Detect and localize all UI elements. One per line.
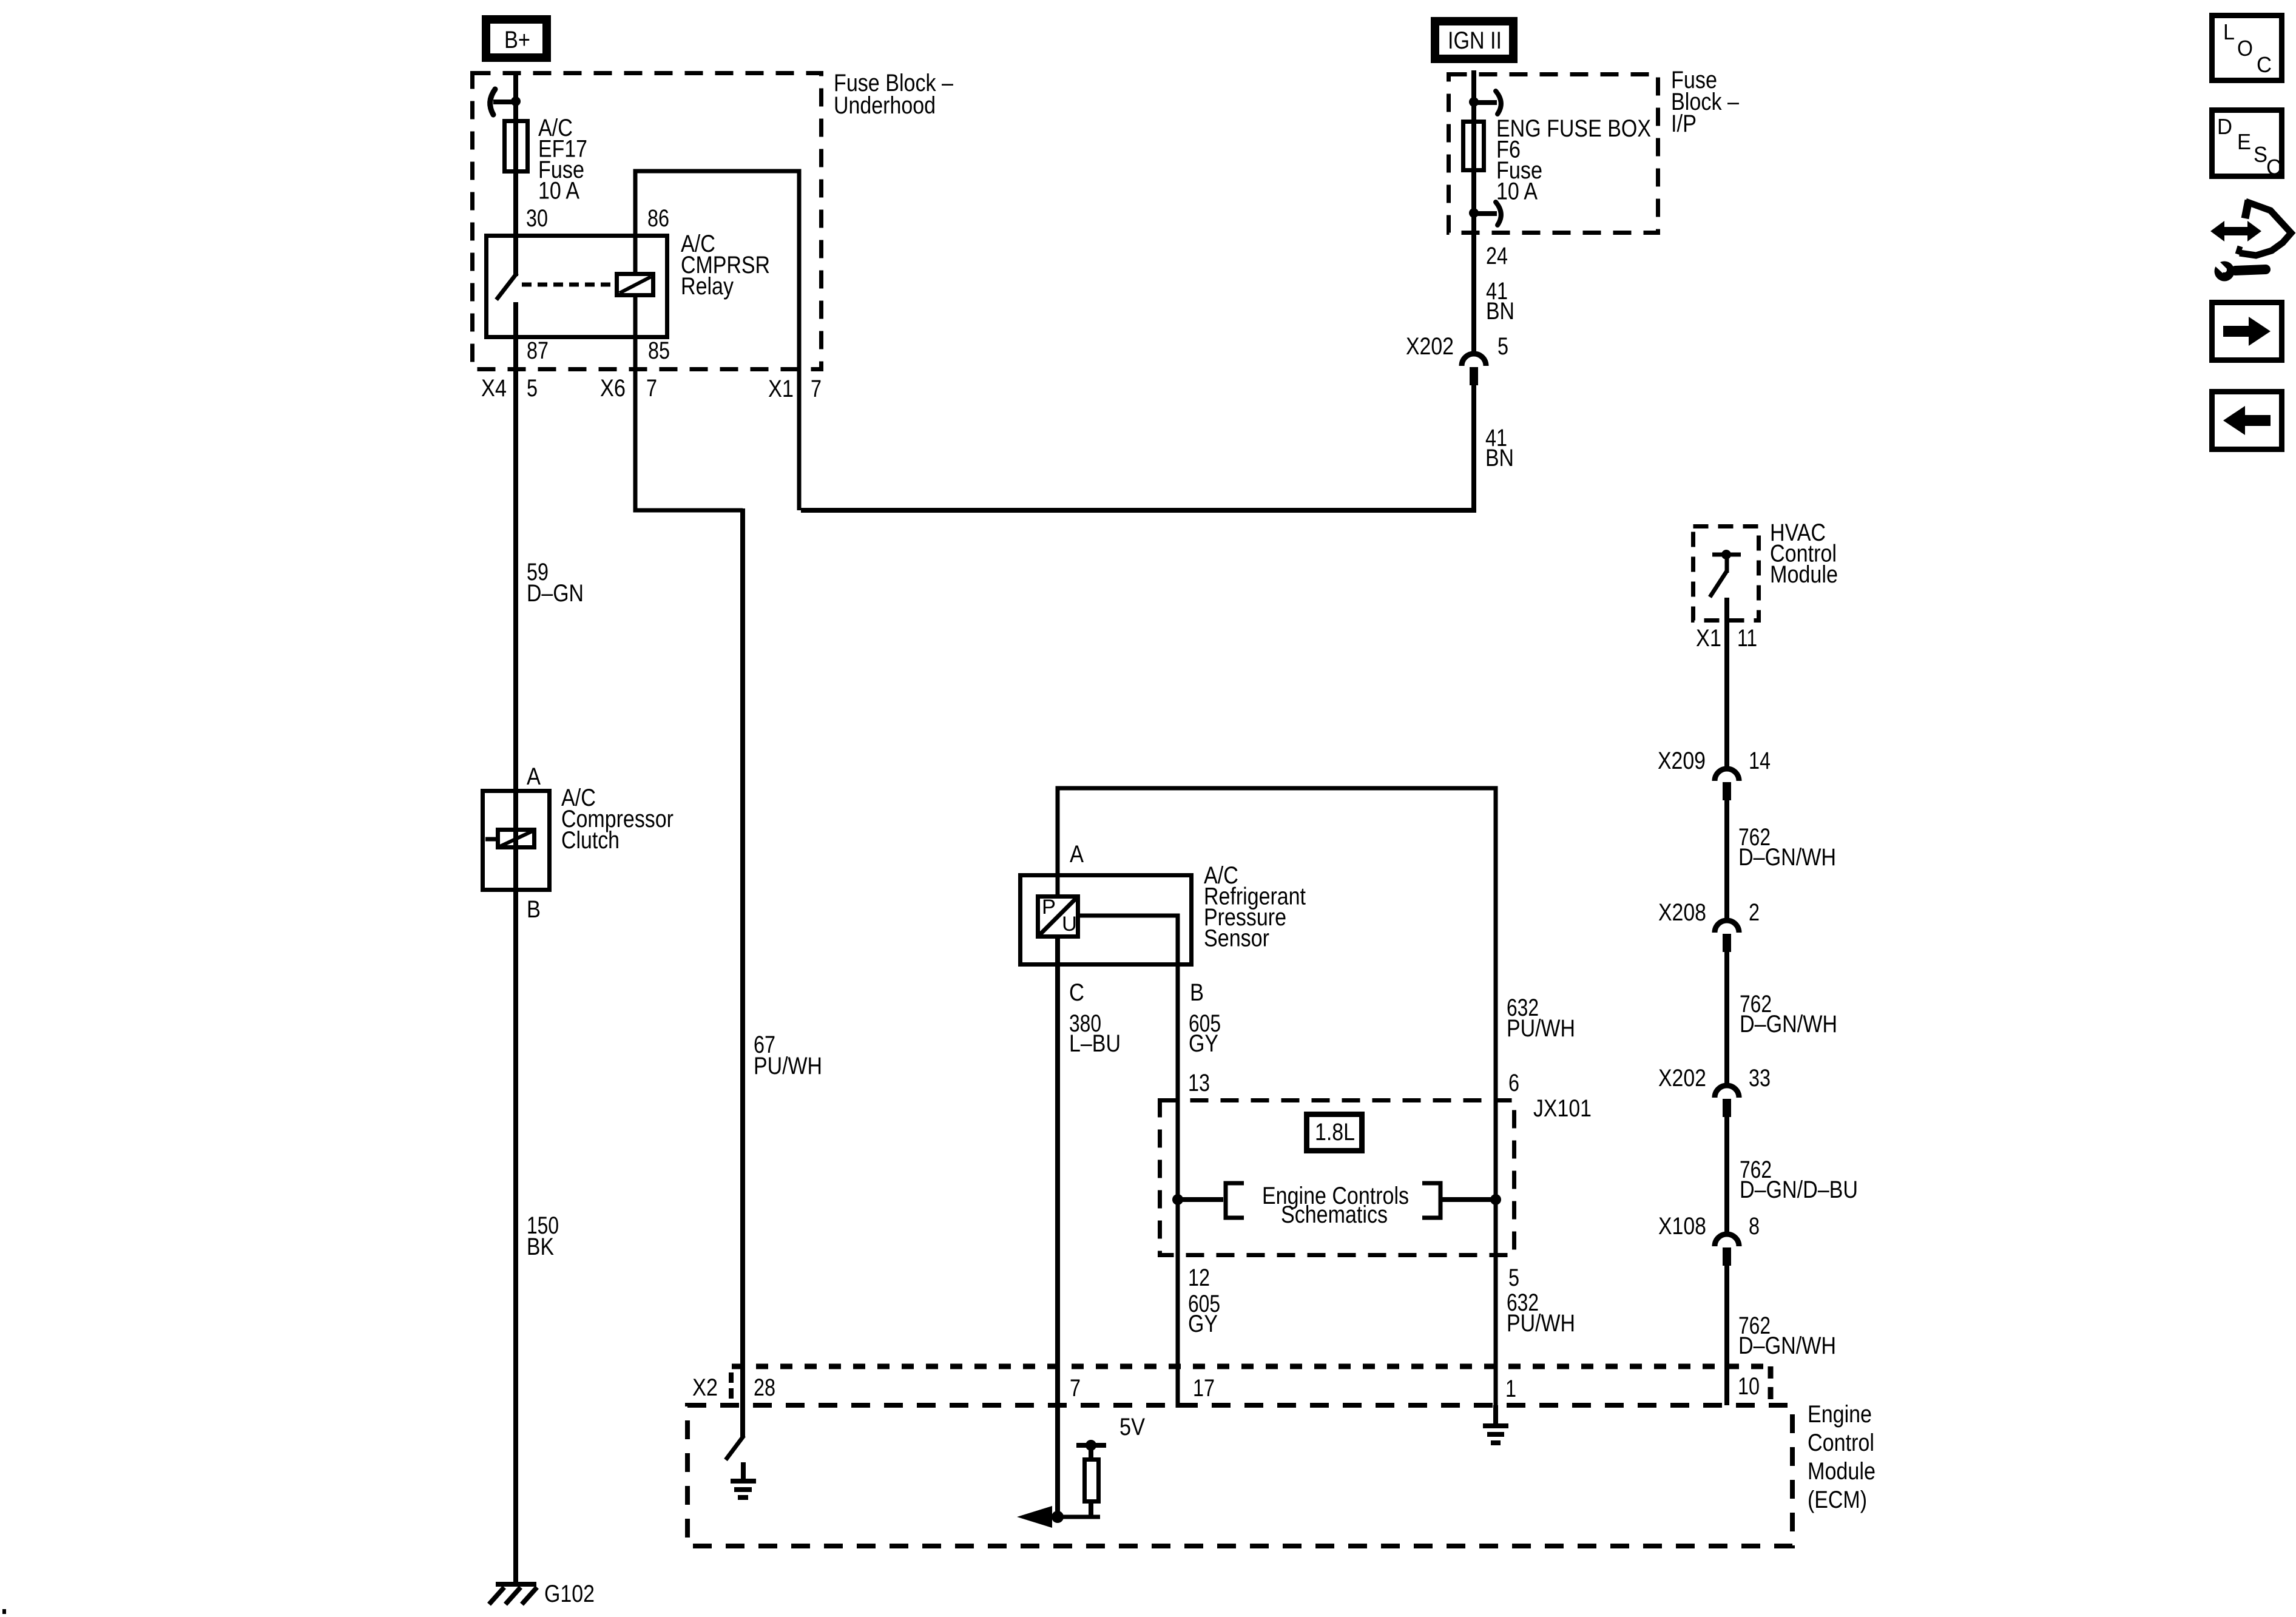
svg-text:C: C [1069, 979, 1084, 1006]
svg-text:Control: Control [1808, 1430, 1874, 1456]
junction dot pin 7 net [1052, 1511, 1064, 1523]
svg-text:PU/WH: PU/WH [1507, 1015, 1575, 1042]
resistor top wire to 5V [1089, 1447, 1093, 1459]
svg-text:2: 2 [1749, 899, 1760, 926]
svg-text:Engine: Engine [1808, 1401, 1872, 1428]
wire IGN II into fuse box [1471, 70, 1476, 173]
fuse block underhood dashed box [473, 73, 822, 370]
fuse block I/P dashed box [1449, 75, 1658, 233]
bus clip symbol left [490, 89, 495, 115]
bus clip symbol lower right [1496, 202, 1501, 225]
fuse ENG FUSE BOX F6 10A [1464, 122, 1484, 170]
relay switch blade [496, 273, 517, 300]
svg-text:X6: X6 [600, 375, 626, 402]
wire relay pin 85 down [635, 295, 743, 510]
sensor P/U transducer box [1038, 897, 1078, 937]
svg-text:5: 5 [1508, 1264, 1519, 1291]
svg-text:5: 5 [1497, 333, 1508, 360]
link wire to right junction [1440, 1197, 1496, 1202]
pullup resistor [1085, 1460, 1099, 1502]
sensor box [1021, 876, 1192, 965]
junction dot right engine controls [1490, 1194, 1501, 1205]
svg-text:B: B [1190, 979, 1204, 1006]
wire fuse to relay pin 30 [513, 171, 518, 276]
relay coil box [617, 274, 653, 295]
svg-text:10 A: 10 A [538, 178, 579, 204]
svg-text:A: A [1070, 841, 1084, 868]
svg-text:B+: B+ [504, 27, 530, 53]
icon box arrow left [2212, 392, 2282, 450]
junction dot lower [1469, 208, 1479, 218]
svg-text:28: 28 [754, 1374, 775, 1401]
svg-text:5: 5 [527, 375, 538, 402]
svg-text:PU/WH: PU/WH [754, 1053, 822, 1079]
svg-text:13: 13 [1188, 1070, 1210, 1096]
X2 dotted separator [729, 1372, 734, 1400]
wire B+ into fuse block (node bus) [513, 71, 518, 121]
svg-text:11: 11 [1737, 625, 1757, 652]
engine controls schematics dashed box [1160, 1101, 1514, 1255]
bus clip symbol upper right [1496, 91, 1501, 114]
svg-text:L–BU: L–BU [1069, 1030, 1121, 1057]
svg-text:I/P: I/P [1671, 110, 1697, 137]
clutch coil left stub [485, 837, 496, 842]
junction dot B+ bus [511, 96, 521, 106]
ECM dashed box [687, 1405, 1792, 1546]
svg-text:X208: X208 [1658, 899, 1706, 926]
icon box LOC [2212, 16, 2282, 81]
svg-text:10: 10 [1738, 1373, 1760, 1400]
5V supply bar [1076, 1443, 1106, 1448]
svg-text:PU/WH: PU/WH [1507, 1310, 1575, 1337]
svg-text:D–GN/WH: D–GN/WH [1740, 1011, 1837, 1038]
svg-text:A: A [527, 763, 541, 790]
right bracket [1422, 1183, 1440, 1218]
relay coil slash [620, 277, 651, 293]
svg-text:G102: G102 [544, 1581, 595, 1607]
ECM internal ground pin 28 [741, 1462, 746, 1480]
svg-text:1: 1 [1505, 1376, 1516, 1402]
svg-text:D–GN: D–GN [527, 580, 584, 607]
P/U slash [1039, 898, 1076, 935]
inline connector X208-2 [1715, 920, 1739, 933]
link wire to left bracket [1178, 1197, 1223, 1202]
relay A/C CMPRSR box [487, 236, 667, 337]
ECM internal ground pin 1 [1493, 1405, 1498, 1425]
svg-text:GY: GY [1189, 1030, 1218, 1057]
svg-text:BN: BN [1485, 445, 1514, 471]
junction dot left engine controls [1172, 1194, 1183, 1205]
svg-text:X4: X4 [481, 375, 507, 402]
wire segment to ECM pin 10 [1724, 1266, 1729, 1405]
svg-text:O: O [2237, 36, 2253, 61]
svg-text:X1: X1 [1696, 625, 1721, 652]
svg-text:Module: Module [1808, 1458, 1876, 1485]
ECM internal switch pin 28 [726, 1436, 744, 1460]
svg-text:14: 14 [1749, 748, 1771, 774]
svg-text:Schematics: Schematics [1281, 1201, 1388, 1228]
svg-text:C: C [2266, 155, 2281, 180]
svg-text:33: 33 [1749, 1065, 1771, 1092]
svg-text:X209: X209 [1658, 748, 1706, 774]
svg-text:30: 30 [526, 205, 548, 232]
svg-text:10 A: 10 A [1496, 178, 1538, 205]
svg-text:85: 85 [648, 337, 670, 364]
wire fuse to X202 [1471, 170, 1476, 353]
wire through fuse EF17 [513, 121, 518, 172]
stray mark bottom left [2, 1609, 6, 1614]
svg-text:8: 8 [1749, 1213, 1760, 1240]
svg-text:7: 7 [811, 376, 822, 402]
svg-text:BK: BK [527, 1234, 554, 1260]
svg-text:7: 7 [646, 375, 657, 402]
wire sensor pin B internal [1080, 916, 1178, 1408]
svg-text:E: E [2237, 129, 2251, 154]
power symbol IGN II [1435, 21, 1513, 59]
svg-text:Module: Module [1770, 561, 1838, 588]
svg-text:D–GN/WH: D–GN/WH [1738, 844, 1836, 871]
wire relay pin 86 loop up [635, 171, 799, 510]
icon box arrow right [2212, 303, 2282, 360]
icon box DESC [2212, 110, 2282, 177]
wire 85 to ECM 67 PU/WH [740, 508, 745, 1437]
wire HVAC out [1724, 598, 1729, 768]
svg-text:X202: X202 [1406, 333, 1454, 360]
svg-text:B: B [527, 896, 541, 923]
engine code box 1.8L [1307, 1115, 1362, 1151]
fuse A/C EF17 10A [505, 121, 528, 172]
junction dot 5V [1086, 1440, 1096, 1451]
clutch coil slash [500, 831, 532, 846]
svg-text:D–GN/WH: D–GN/WH [1738, 1332, 1836, 1359]
inline connector X108-8 [1715, 1234, 1739, 1246]
HVAC switch stub [1725, 557, 1729, 573]
svg-text:D–GN/D–BU: D–GN/D–BU [1740, 1176, 1858, 1203]
svg-text:86: 86 [647, 205, 669, 232]
wrench [2215, 262, 2235, 282]
svg-text:JX101: JX101 [1533, 1095, 1592, 1122]
ground G102 symbol [496, 1582, 536, 1587]
svg-text:Sensor: Sensor [1204, 925, 1269, 952]
inline connector X202-5 [1462, 354, 1486, 366]
svg-text:(ECM): (ECM) [1808, 1487, 1867, 1513]
svg-text:P: P [1042, 896, 1056, 919]
clutch coil rect [498, 830, 535, 848]
svg-text:Underhood: Underhood [834, 92, 936, 119]
svg-text:87: 87 [527, 337, 549, 364]
svg-text:L: L [2223, 19, 2235, 44]
wire clutch to ground 150 BK [513, 887, 518, 1582]
wire sensor pin A loop to 632 [1058, 788, 1496, 1408]
junction dot upper [1469, 97, 1479, 107]
wire sensor pin C down [1055, 939, 1060, 1517]
relay internal dashed link [522, 283, 614, 287]
resistor bottom wire [1089, 1502, 1093, 1517]
HVAC control module dashed box [1693, 527, 1759, 621]
svg-text:24: 24 [1486, 243, 1508, 269]
wire X202 down and across to X1-7 [801, 384, 1474, 510]
svg-text:S: S [2254, 142, 2267, 167]
svg-text:6: 6 [1508, 1070, 1519, 1096]
svg-text:X2: X2 [692, 1374, 718, 1401]
HVAC switch blade [1710, 571, 1727, 597]
svg-text:BN: BN [1486, 298, 1514, 325]
svg-text:IGN II: IGN II [1448, 27, 1502, 54]
ECM internal arrow pin 7 [1032, 1515, 1100, 1519]
svg-text:Relay: Relay [681, 273, 734, 300]
ECM dotted boundary [732, 1364, 1771, 1369]
left bracket [1226, 1183, 1244, 1218]
svg-text:5V: 5V [1119, 1414, 1145, 1440]
inline connector X202-33 [1715, 1085, 1739, 1098]
wire segment 762 D-GN/D-BU [1724, 1117, 1729, 1234]
svg-text:X108: X108 [1658, 1213, 1706, 1240]
inline connector X209-14 [1715, 769, 1739, 781]
HVAC switch bar and dot [1712, 553, 1741, 557]
svg-text:X1: X1 [768, 376, 794, 402]
svg-text:GY: GY [1188, 1311, 1218, 1337]
wire segment 762 D-GN/WH 2 [1724, 952, 1729, 1085]
icon double arrow with wrench [2210, 221, 2261, 241]
wire segment 762 D-GN/WH 1 [1724, 800, 1729, 920]
svg-text:X202: X202 [1658, 1065, 1706, 1092]
svg-text:1.8L: 1.8L [1315, 1119, 1355, 1146]
svg-text:U: U [1062, 913, 1077, 936]
svg-text:17: 17 [1193, 1375, 1215, 1402]
svg-text:12: 12 [1188, 1264, 1210, 1291]
svg-text:Clutch: Clutch [561, 827, 620, 854]
power symbol B+ [486, 19, 547, 58]
A/C compressor clutch box [483, 791, 550, 890]
svg-text:C: C [2257, 52, 2272, 77]
svg-text:7: 7 [1070, 1375, 1081, 1402]
svg-text:D: D [2217, 114, 2232, 139]
relay switch fixed contact stub to pin 87 [513, 302, 518, 892]
